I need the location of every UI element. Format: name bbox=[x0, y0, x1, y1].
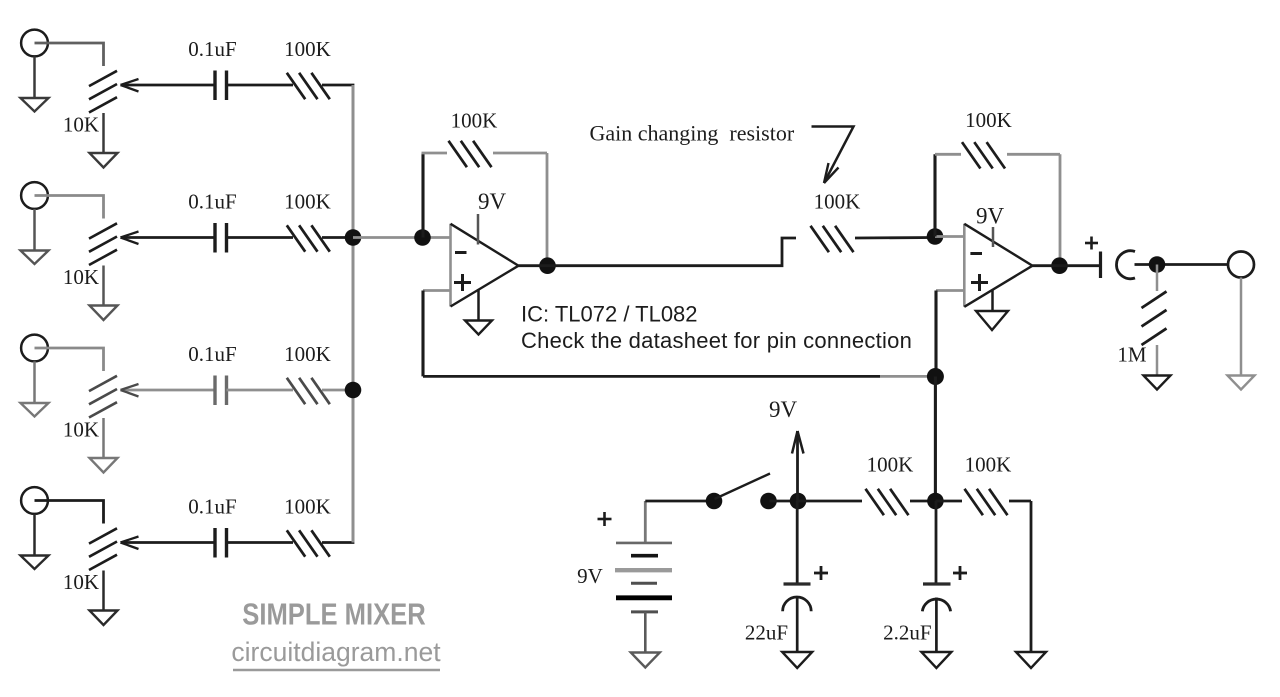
svg-text:100K: 100K bbox=[284, 190, 331, 214]
svg-text:10K: 10K bbox=[63, 570, 99, 594]
svg-text:0.1uF: 0.1uF bbox=[188, 190, 236, 214]
svg-text:9V: 9V bbox=[577, 564, 603, 588]
svg-text:10K: 10K bbox=[63, 265, 99, 289]
svg-text:IC: TL072 / TL082: IC: TL072 / TL082 bbox=[521, 302, 698, 327]
svg-text:Gain changing resistor: Gain changing resistor bbox=[590, 121, 795, 146]
svg-text:2.2uF: 2.2uF bbox=[883, 621, 931, 645]
svg-text:0.1uF: 0.1uF bbox=[188, 342, 236, 366]
svg-text:Check the datasheet for pin co: Check the datasheet for pin connection bbox=[521, 328, 912, 353]
svg-text:9V: 9V bbox=[478, 189, 507, 214]
svg-text:10K: 10K bbox=[63, 418, 99, 442]
svg-text:100K: 100K bbox=[965, 453, 1012, 477]
svg-text:circuitdiagram.net: circuitdiagram.net bbox=[231, 637, 441, 667]
svg-text:9V: 9V bbox=[769, 397, 798, 422]
svg-text:1M: 1M bbox=[1117, 343, 1147, 367]
svg-text:9V: 9V bbox=[976, 204, 1005, 229]
svg-text:100K: 100K bbox=[814, 190, 861, 214]
svg-text:100K: 100K bbox=[284, 342, 331, 366]
svg-text:100K: 100K bbox=[867, 453, 914, 477]
svg-text:0.1uF: 0.1uF bbox=[188, 37, 236, 61]
svg-text:100K: 100K bbox=[284, 495, 331, 519]
svg-text:100K: 100K bbox=[965, 108, 1012, 132]
svg-text:10K: 10K bbox=[63, 113, 99, 137]
svg-text:22uF: 22uF bbox=[745, 621, 788, 645]
svg-text:100K: 100K bbox=[451, 109, 498, 133]
svg-text:100K: 100K bbox=[284, 37, 331, 61]
svg-text:0.1uF: 0.1uF bbox=[188, 495, 236, 519]
svg-text:SIMPLE MIXER: SIMPLE MIXER bbox=[242, 597, 426, 632]
